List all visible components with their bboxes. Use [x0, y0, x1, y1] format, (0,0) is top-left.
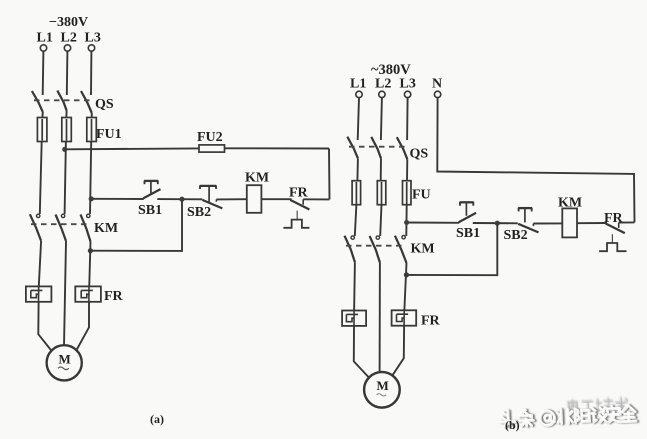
svg-text:FU: FU: [412, 188, 431, 203]
svg-text:SB1: SB1: [138, 203, 162, 218]
svg-text:FR: FR: [604, 211, 624, 226]
svg-text:QS: QS: [410, 147, 429, 162]
svg-text:SB2: SB2: [504, 228, 528, 243]
svg-text:L3: L3: [400, 77, 416, 92]
svg-text:FR: FR: [289, 186, 309, 201]
svg-text:KM: KM: [411, 242, 435, 257]
svg-text:L2: L2: [375, 77, 391, 92]
svg-text:L2: L2: [61, 31, 77, 46]
svg-text:FR: FR: [104, 289, 124, 304]
svg-text:L3: L3: [85, 31, 101, 46]
svg-text:SB2: SB2: [187, 205, 211, 220]
svg-text:L1: L1: [350, 77, 366, 92]
svg-text:FR: FR: [421, 314, 441, 329]
svg-text:KM: KM: [558, 196, 582, 211]
svg-text:KM: KM: [94, 221, 118, 236]
svg-text:(a): (a): [150, 412, 164, 426]
svg-text:FU1: FU1: [96, 127, 122, 142]
svg-text:M: M: [59, 352, 71, 367]
svg-text:L1: L1: [37, 31, 53, 46]
svg-text:(b): (b): [505, 418, 520, 432]
svg-text:SB1: SB1: [456, 226, 480, 241]
svg-text:QS: QS: [95, 97, 114, 112]
svg-text:N: N: [432, 77, 442, 92]
svg-text:M: M: [377, 378, 389, 393]
svg-text:FU2: FU2: [197, 130, 223, 145]
svg-text:KM: KM: [245, 171, 269, 186]
svg-text:−380V: −380V: [49, 15, 88, 30]
